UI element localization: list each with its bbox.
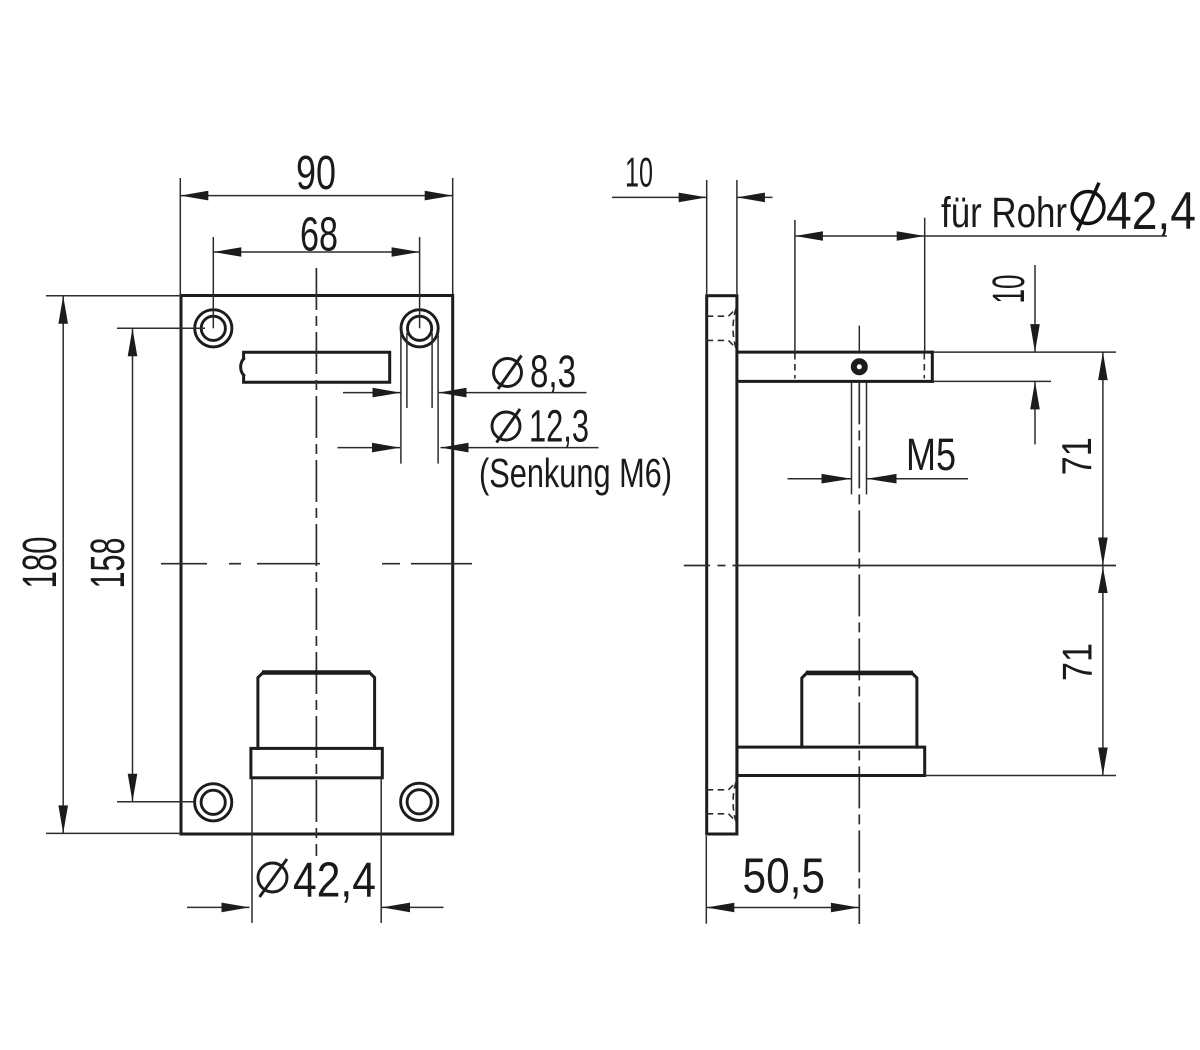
projection lines of hole Ø8,3 (inner tangents) xyxy=(406,333,408,408)
svg-text:10: 10 xyxy=(625,149,653,196)
dim M5: extension lines (thread tangents) xyxy=(851,382,853,494)
dim 180: extension lines xyxy=(46,295,181,297)
side view: hidden line of tube seat left edge inside arm xyxy=(794,353,796,379)
svg-text:10: 10 xyxy=(983,275,1034,304)
projection lines of hole Ø12,3 (outer tangents) xyxy=(400,332,402,464)
dim 10 plate: dimension line with outside arrows xyxy=(612,196,707,198)
side view: hidden countersunk hole top (drill lines) xyxy=(707,315,729,317)
side view: bracket arm (tube support) outline xyxy=(737,351,932,354)
side view: flange bottom extension line xyxy=(925,775,1116,777)
side view: M5 threaded hole (dot) xyxy=(854,361,865,372)
dim Ø8,3: dimension line with arrows xyxy=(343,392,401,394)
svg-text:90: 90 xyxy=(296,147,336,200)
dim Ø42,4 front: diameter symbol xyxy=(258,863,287,892)
svg-text:für Rohr: für Rohr xyxy=(941,189,1067,237)
dim 71 lower: dimension line with arrows xyxy=(1102,566,1104,776)
dim 71 upper: dimension line with arrows xyxy=(1102,352,1104,565)
dim Ø42,4 front: extension lines xyxy=(251,778,253,923)
svg-text:68: 68 xyxy=(300,208,338,261)
dim für Rohr Ø42,4: extension lines xyxy=(794,220,796,352)
svg-text:(Senkung M6): (Senkung M6) xyxy=(479,450,672,496)
svg-text:71: 71 xyxy=(1054,643,1101,681)
side view: horizontal centerline / extension at mid height xyxy=(684,565,710,567)
front view: vertical centerline xyxy=(315,268,317,856)
svg-text:12,3: 12,3 xyxy=(529,400,589,451)
dim Ø12,3: dimension line with arrows xyxy=(338,447,401,449)
dim 10 arm: extension lines xyxy=(932,351,1116,353)
side view: plate in profile xyxy=(707,296,737,834)
svg-text:50,5: 50,5 xyxy=(743,850,826,904)
side view: base flange profile xyxy=(737,747,925,775)
front view: tube boss (upper block) xyxy=(258,673,375,749)
dim 50,5: dimension line with arrows xyxy=(706,907,859,909)
dim 50,5: extension line (plate face) xyxy=(705,836,707,924)
front view: countersunk hole top-right (outer Ø12,3 / inner Ø8,3) xyxy=(401,310,438,347)
front view: countersunk hole top-left (outer Ø12,3 / inner Ø8,3) xyxy=(195,310,232,347)
front view: countersunk hole bottom-right (outer Ø12,3 / inner Ø8,3) xyxy=(401,783,438,820)
dim für Rohr Ø42,4: dimension line with arrows xyxy=(795,235,1167,237)
svg-text:42,4: 42,4 xyxy=(1106,182,1196,241)
svg-text:M5: M5 xyxy=(906,429,956,480)
svg-text:71: 71 xyxy=(1053,437,1100,475)
front view: horizontal centerline xyxy=(161,563,207,565)
svg-text:42,4: 42,4 xyxy=(293,854,376,908)
dim 180: dimension line with arrows xyxy=(62,296,64,834)
dim M5: dimension line with outside arrows xyxy=(788,478,852,480)
front view: mounting plate outline xyxy=(181,296,453,835)
dim für Rohr Ø42,4: diameter symbol xyxy=(1072,192,1104,224)
svg-text:158: 158 xyxy=(82,538,135,589)
svg-text:180: 180 xyxy=(14,537,67,589)
front view: slot cutout with arc on left end xyxy=(244,352,390,382)
front view: countersunk hole bottom-left (outer Ø12,3 / inner Ø8,3) xyxy=(195,784,232,821)
dim 90: extension lines xyxy=(179,178,181,294)
svg-text:8,3: 8,3 xyxy=(530,346,576,397)
side view: hidden line of tube seat right edge inside arm xyxy=(923,353,925,379)
dim 10 arm: dimension line with outside arrows xyxy=(1034,265,1036,352)
side view: M5 hole axis above arm xyxy=(858,326,860,351)
dim 10 plate: extension lines xyxy=(706,180,708,294)
front view: base flange (lower block) xyxy=(251,748,382,777)
side view: M5 / boss axis centerline xyxy=(858,382,860,924)
dim 68: extension lines xyxy=(212,237,214,328)
dim 158: extension lines xyxy=(117,327,205,329)
dim Ø42,4 front: dimension line with outside arrows xyxy=(187,906,250,908)
dim Ø8,3: diameter symbol xyxy=(494,359,522,387)
dim 90: dimension line with arrows xyxy=(180,195,452,197)
side view: tube boss profile xyxy=(802,673,917,747)
dim Ø12,3: diameter symbol xyxy=(492,412,520,440)
dim 68: dimension line with arrows xyxy=(213,251,419,253)
side view: hidden countersunk hole bottom (drill lines) xyxy=(707,789,729,791)
dim 158: dimension line with arrows xyxy=(132,328,134,801)
